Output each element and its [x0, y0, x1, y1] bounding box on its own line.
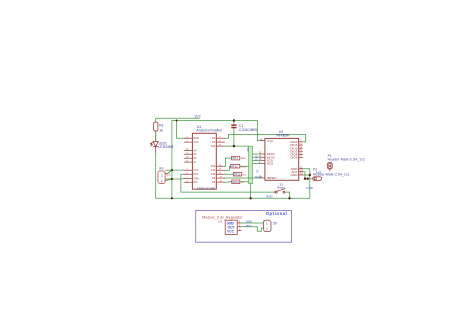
svg-text:RXI: RXI	[193, 181, 197, 184]
svg-text:Optional: Optional	[266, 211, 287, 216]
svg-text:ArduinoProMini: ArduinoProMini	[196, 129, 222, 133]
svg-text:RST: RST	[193, 173, 198, 176]
svg-text:D13: D13	[211, 165, 216, 168]
svg-text:2: 2	[161, 174, 163, 178]
svg-text:RAW: RAW	[193, 137, 199, 140]
svg-text:3xC: 3xC	[166, 172, 171, 176]
svg-text:RF12: RF12	[232, 165, 239, 168]
svg-text:Module_3.3v_Regulator: Module_3.3v_Regulator	[202, 216, 243, 220]
svg-text:1k: 1k	[159, 128, 163, 132]
svg-text:ATMEGA328P: ATMEGA328P	[197, 186, 215, 190]
svg-text:D11: D11	[211, 169, 216, 172]
svg-text:1: 1	[161, 179, 163, 183]
svg-text:1: 1	[266, 221, 268, 225]
svg-text:D10: D10	[211, 173, 216, 176]
svg-text:GND: GND	[193, 178, 199, 181]
svg-text:GND: GND	[246, 219, 252, 223]
svg-text:R1: R1	[159, 124, 163, 128]
svg-text:SS: SS	[255, 170, 258, 174]
svg-text:D12: D12	[211, 145, 216, 148]
svg-text:GND: GND	[306, 186, 314, 190]
svg-text:VCC: VCC	[193, 169, 198, 172]
svg-text:Header-Male-2.54_1x1: Header-Male-2.54_1x1	[313, 173, 350, 177]
svg-text:RST: RST	[246, 224, 252, 228]
svg-text:GND: GND	[255, 155, 258, 161]
svg-text:MOSI: MOSI	[241, 166, 247, 168]
svg-text:RF13: RF13	[234, 173, 241, 176]
svg-text:U3: U3	[218, 219, 222, 223]
svg-text:RF10: RF10	[233, 181, 240, 184]
svg-text:VCC: VCC	[193, 141, 198, 144]
svg-text:SCK: SCK	[242, 174, 247, 176]
svg-text:GND: GND	[266, 195, 274, 199]
svg-text:MISO: MISO	[241, 158, 247, 160]
svg-text:INT1: INT1	[232, 157, 238, 160]
svg-text:3v3: 3v3	[246, 148, 249, 153]
svg-text:3V3: 3V3	[195, 114, 201, 118]
svg-text:VCC: VCC	[227, 229, 235, 233]
svg-text:2: 2	[266, 226, 268, 230]
svg-text:JP2: JP2	[158, 167, 164, 171]
svg-text:GND: GND	[291, 173, 299, 177]
svg-text:RFM69H: RFM69H	[277, 134, 291, 138]
svg-text:DIO5: DIO5	[290, 156, 297, 160]
svg-text:3.3V: 3.3V	[267, 139, 273, 143]
svg-text:C-EUC0805: C-EUC0805	[239, 128, 257, 132]
svg-text:LED0MM: LED0MM	[158, 145, 173, 149]
svg-text:NSS: NSS	[267, 162, 273, 166]
svg-text:Header-Male-2.54_1x1: Header-Male-2.54_1x1	[328, 158, 366, 162]
svg-text:RESET: RESET	[267, 176, 277, 180]
